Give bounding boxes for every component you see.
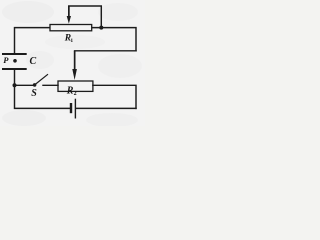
- capacitor C bottom plate: [2, 68, 27, 70]
- wire: bottom rail, battery negative side to bottom-left corner, up left rail: [15, 85, 71, 108]
- rheostat R2 slider arrow: [72, 51, 77, 80]
- svg-text:R: R: [66, 86, 74, 97]
- wire: switch node to switch pivot: [15, 84, 35, 86]
- wire: R1 right terminal through node to right rail, down: [92, 28, 136, 51]
- wire: capacitor bottom plate down to switch node: [14, 70, 16, 86]
- svg-text:P: P: [3, 55, 9, 65]
- battery negative plate (short, thick): [70, 103, 72, 113]
- svg-text:S: S: [31, 88, 37, 99]
- charged particle P between plates: [13, 59, 17, 63]
- node A: junction of bypass and R1 right wire: [99, 26, 103, 30]
- wire: R1 left terminal to left rail, down to capacitor top plate: [15, 28, 51, 54]
- wire: right rail across to R2 slider arrow: [75, 50, 136, 52]
- svg-text:1: 1: [70, 38, 73, 44]
- wire: switch fixed contact to R2 left terminal: [43, 84, 58, 86]
- svg-text:2: 2: [74, 91, 77, 97]
- resistor box R2: [58, 81, 93, 91]
- capacitor C top plate: [2, 53, 27, 55]
- switch S pivot dot: [33, 83, 37, 87]
- rheostat R1 slider arrow: [67, 6, 71, 24]
- svg-text:C: C: [30, 56, 37, 67]
- battery positive plate (long, thin): [74, 99, 76, 119]
- wire: slider bypass of R1, top: [69, 6, 102, 28]
- resistor box R1 (rheostat): [50, 25, 92, 31]
- switch S blade: [35, 74, 48, 85]
- wire: bottom rail, battery positive side: [76, 107, 136, 109]
- wire: R2 right terminal to right rail, down to bottom rail: [93, 85, 136, 108]
- node B: junction of switch wire and left rail: [13, 83, 17, 87]
